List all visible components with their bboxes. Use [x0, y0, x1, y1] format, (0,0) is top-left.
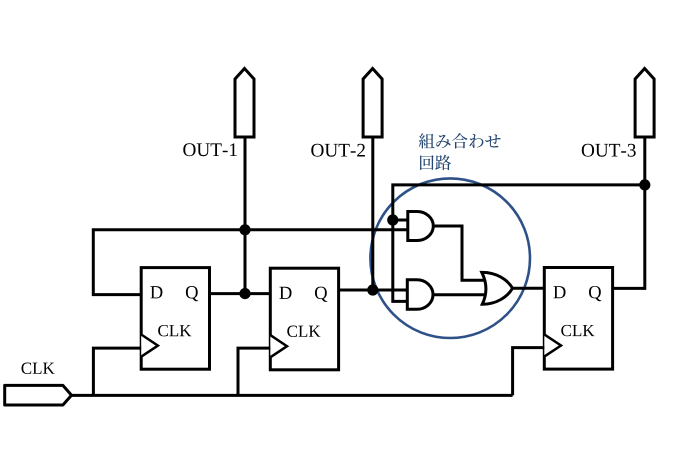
node FF2-Q / OUT-2 junction	[367, 284, 378, 295]
OR gate G3	[482, 272, 513, 304]
AND gate G1 (top)	[408, 212, 434, 241]
FF2 pin label Q	[315, 287, 327, 302]
wire AND1 output to OR input-1	[433, 226, 487, 280]
wire AND2 output to OR input-2	[433, 293, 486, 296]
node feedback / AND1 input junction	[387, 214, 398, 225]
wire OUT-2 vertical drop	[371, 137, 374, 291]
node FF1-Q / OUT-1 upper junction	[239, 224, 250, 235]
wire feedback from node OUT-3 to gates	[393, 185, 645, 302]
FF3 pin label CLK	[561, 325, 594, 336]
terminal OUT-1 connector	[235, 69, 254, 138]
wire FF2 Q to AND2 input-1	[339, 289, 408, 292]
wire FF1 Q to FF2 D	[210, 292, 271, 295]
flip-flop FF3 box	[544, 268, 612, 370]
wire CLK branch to FF1	[93, 348, 141, 395]
FF1 pin label CLK	[158, 325, 191, 336]
wire OUT-1 vertical drop	[244, 137, 247, 294]
node FF3-Q / OUT-3 junction	[639, 179, 650, 190]
wire CLK branch to FF2	[238, 348, 270, 395]
label OUT-2	[311, 144, 365, 157]
label CLK input	[21, 363, 54, 374]
wire OR output to FF3 D	[512, 287, 545, 290]
FF2 clock edge triangle	[270, 335, 287, 357]
terminal CLK connector	[5, 385, 72, 405]
wire CLK main line	[71, 394, 513, 397]
flip-flop FF2 box	[270, 268, 338, 370]
label OUT-1	[183, 143, 237, 156]
combinational-circuit circle	[370, 178, 530, 338]
AND gate G2 (bottom)	[407, 280, 433, 310]
wire CLK branch to FF3	[513, 348, 545, 396]
FF1 pin label Q	[186, 286, 198, 301]
node FF1-Q / OUT-1 lower junction	[239, 288, 250, 299]
label 組み合わせ	[419, 133, 501, 148]
wire FF1-Q net to AND1 input-2 and FF1 D	[93, 230, 408, 295]
wire AND1 input-1 stub	[393, 219, 408, 222]
terminal OUT-3 connector	[635, 69, 654, 138]
FF3 pin label D	[553, 286, 565, 298]
label OUT-3	[582, 144, 636, 157]
flip-flop FF1 box	[141, 268, 209, 370]
FF2 pin label CLK	[287, 326, 320, 337]
FF3 pin label Q	[589, 286, 601, 301]
FF2 pin label D	[279, 287, 291, 299]
FF1 clock edge triangle	[141, 335, 158, 357]
wire OUT-3 drop to FF3 Q	[613, 137, 645, 289]
label 回路	[420, 155, 451, 170]
FF1 pin label D	[150, 286, 162, 298]
FF3 clock edge triangle	[544, 334, 561, 356]
terminal OUT-2 connector	[363, 69, 382, 138]
